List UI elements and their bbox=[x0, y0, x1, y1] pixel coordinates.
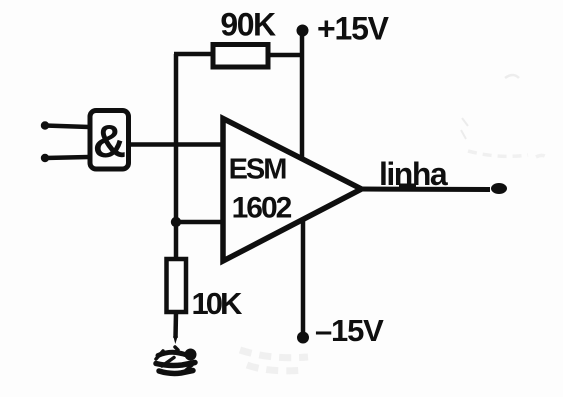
svg-text:90K: 90K bbox=[220, 7, 276, 43]
node junction at inverting input bbox=[171, 217, 181, 227]
svg-text:+15V: +15V bbox=[317, 11, 390, 47]
wire output (linha) bbox=[361, 187, 490, 193]
wire R1 left bbox=[174, 52, 214, 57]
wire junction to inverting input bbox=[176, 220, 223, 225]
svg-text:ESM: ESM bbox=[229, 154, 287, 186]
resistor R1 90K bbox=[213, 45, 268, 68]
wire +15V supply to op-amp bbox=[300, 30, 305, 158]
ground bbox=[156, 347, 197, 373]
svg-text:–15V: –15V bbox=[315, 313, 384, 348]
op-amp U1 (ESM 1602) bbox=[223, 119, 362, 262]
resistor R2 10K bbox=[167, 259, 187, 312]
background artifacts (faint scanner smudges) bbox=[240, 75, 548, 371]
label linha underline mark bbox=[399, 184, 416, 189]
node +15V (supply dot) bbox=[297, 25, 309, 37]
input wire top bbox=[41, 121, 89, 129]
input wire bottom bbox=[41, 154, 89, 162]
node -15V (supply dot) bbox=[297, 332, 309, 344]
svg-text:1602: 1602 bbox=[232, 192, 292, 225]
wire AND output to op-amp non-inverting input bbox=[129, 142, 223, 147]
output terminal blob bbox=[491, 183, 507, 194]
AND gate U2 bbox=[90, 111, 129, 170]
svg-text:10K: 10K bbox=[192, 286, 243, 321]
wire R2 to ground bbox=[173, 312, 178, 344]
wire -15V supply to op-amp bbox=[301, 220, 306, 337]
wire feedback vertical (90K / 10K bus) bbox=[174, 54, 179, 259]
wire R1 right bbox=[268, 53, 304, 58]
svg-text:&: & bbox=[93, 115, 126, 167]
